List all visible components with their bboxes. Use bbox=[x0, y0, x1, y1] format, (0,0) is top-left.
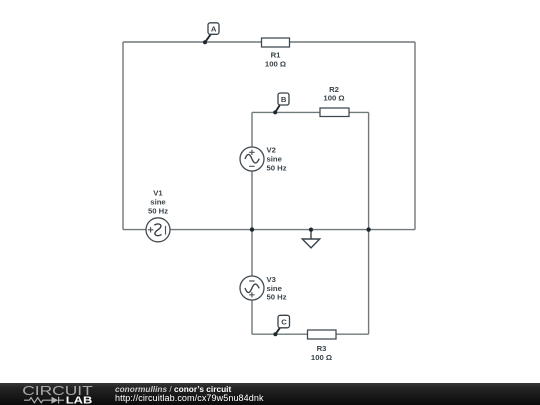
svg-text:C: C bbox=[281, 318, 287, 327]
svg-text:50 Hz: 50 Hz bbox=[267, 164, 287, 173]
svg-text:100 Ω: 100 Ω bbox=[265, 60, 286, 69]
svg-text:V2: V2 bbox=[267, 146, 276, 155]
svg-text:V1: V1 bbox=[153, 189, 163, 198]
svg-text:V3: V3 bbox=[267, 275, 276, 284]
svg-text:LAB: LAB bbox=[66, 394, 93, 405]
svg-text:100 Ω: 100 Ω bbox=[311, 353, 332, 362]
svg-text:50 Hz: 50 Hz bbox=[267, 293, 287, 302]
svg-text:B: B bbox=[281, 95, 287, 104]
svg-text:A: A bbox=[211, 24, 217, 33]
svg-text:sine: sine bbox=[150, 198, 166, 207]
svg-text:R1: R1 bbox=[271, 51, 282, 60]
svg-text:50 Hz: 50 Hz bbox=[148, 207, 168, 216]
svg-text:100 Ω: 100 Ω bbox=[323, 94, 344, 103]
svg-text:R3: R3 bbox=[317, 344, 327, 353]
svg-text:sine: sine bbox=[267, 155, 283, 164]
